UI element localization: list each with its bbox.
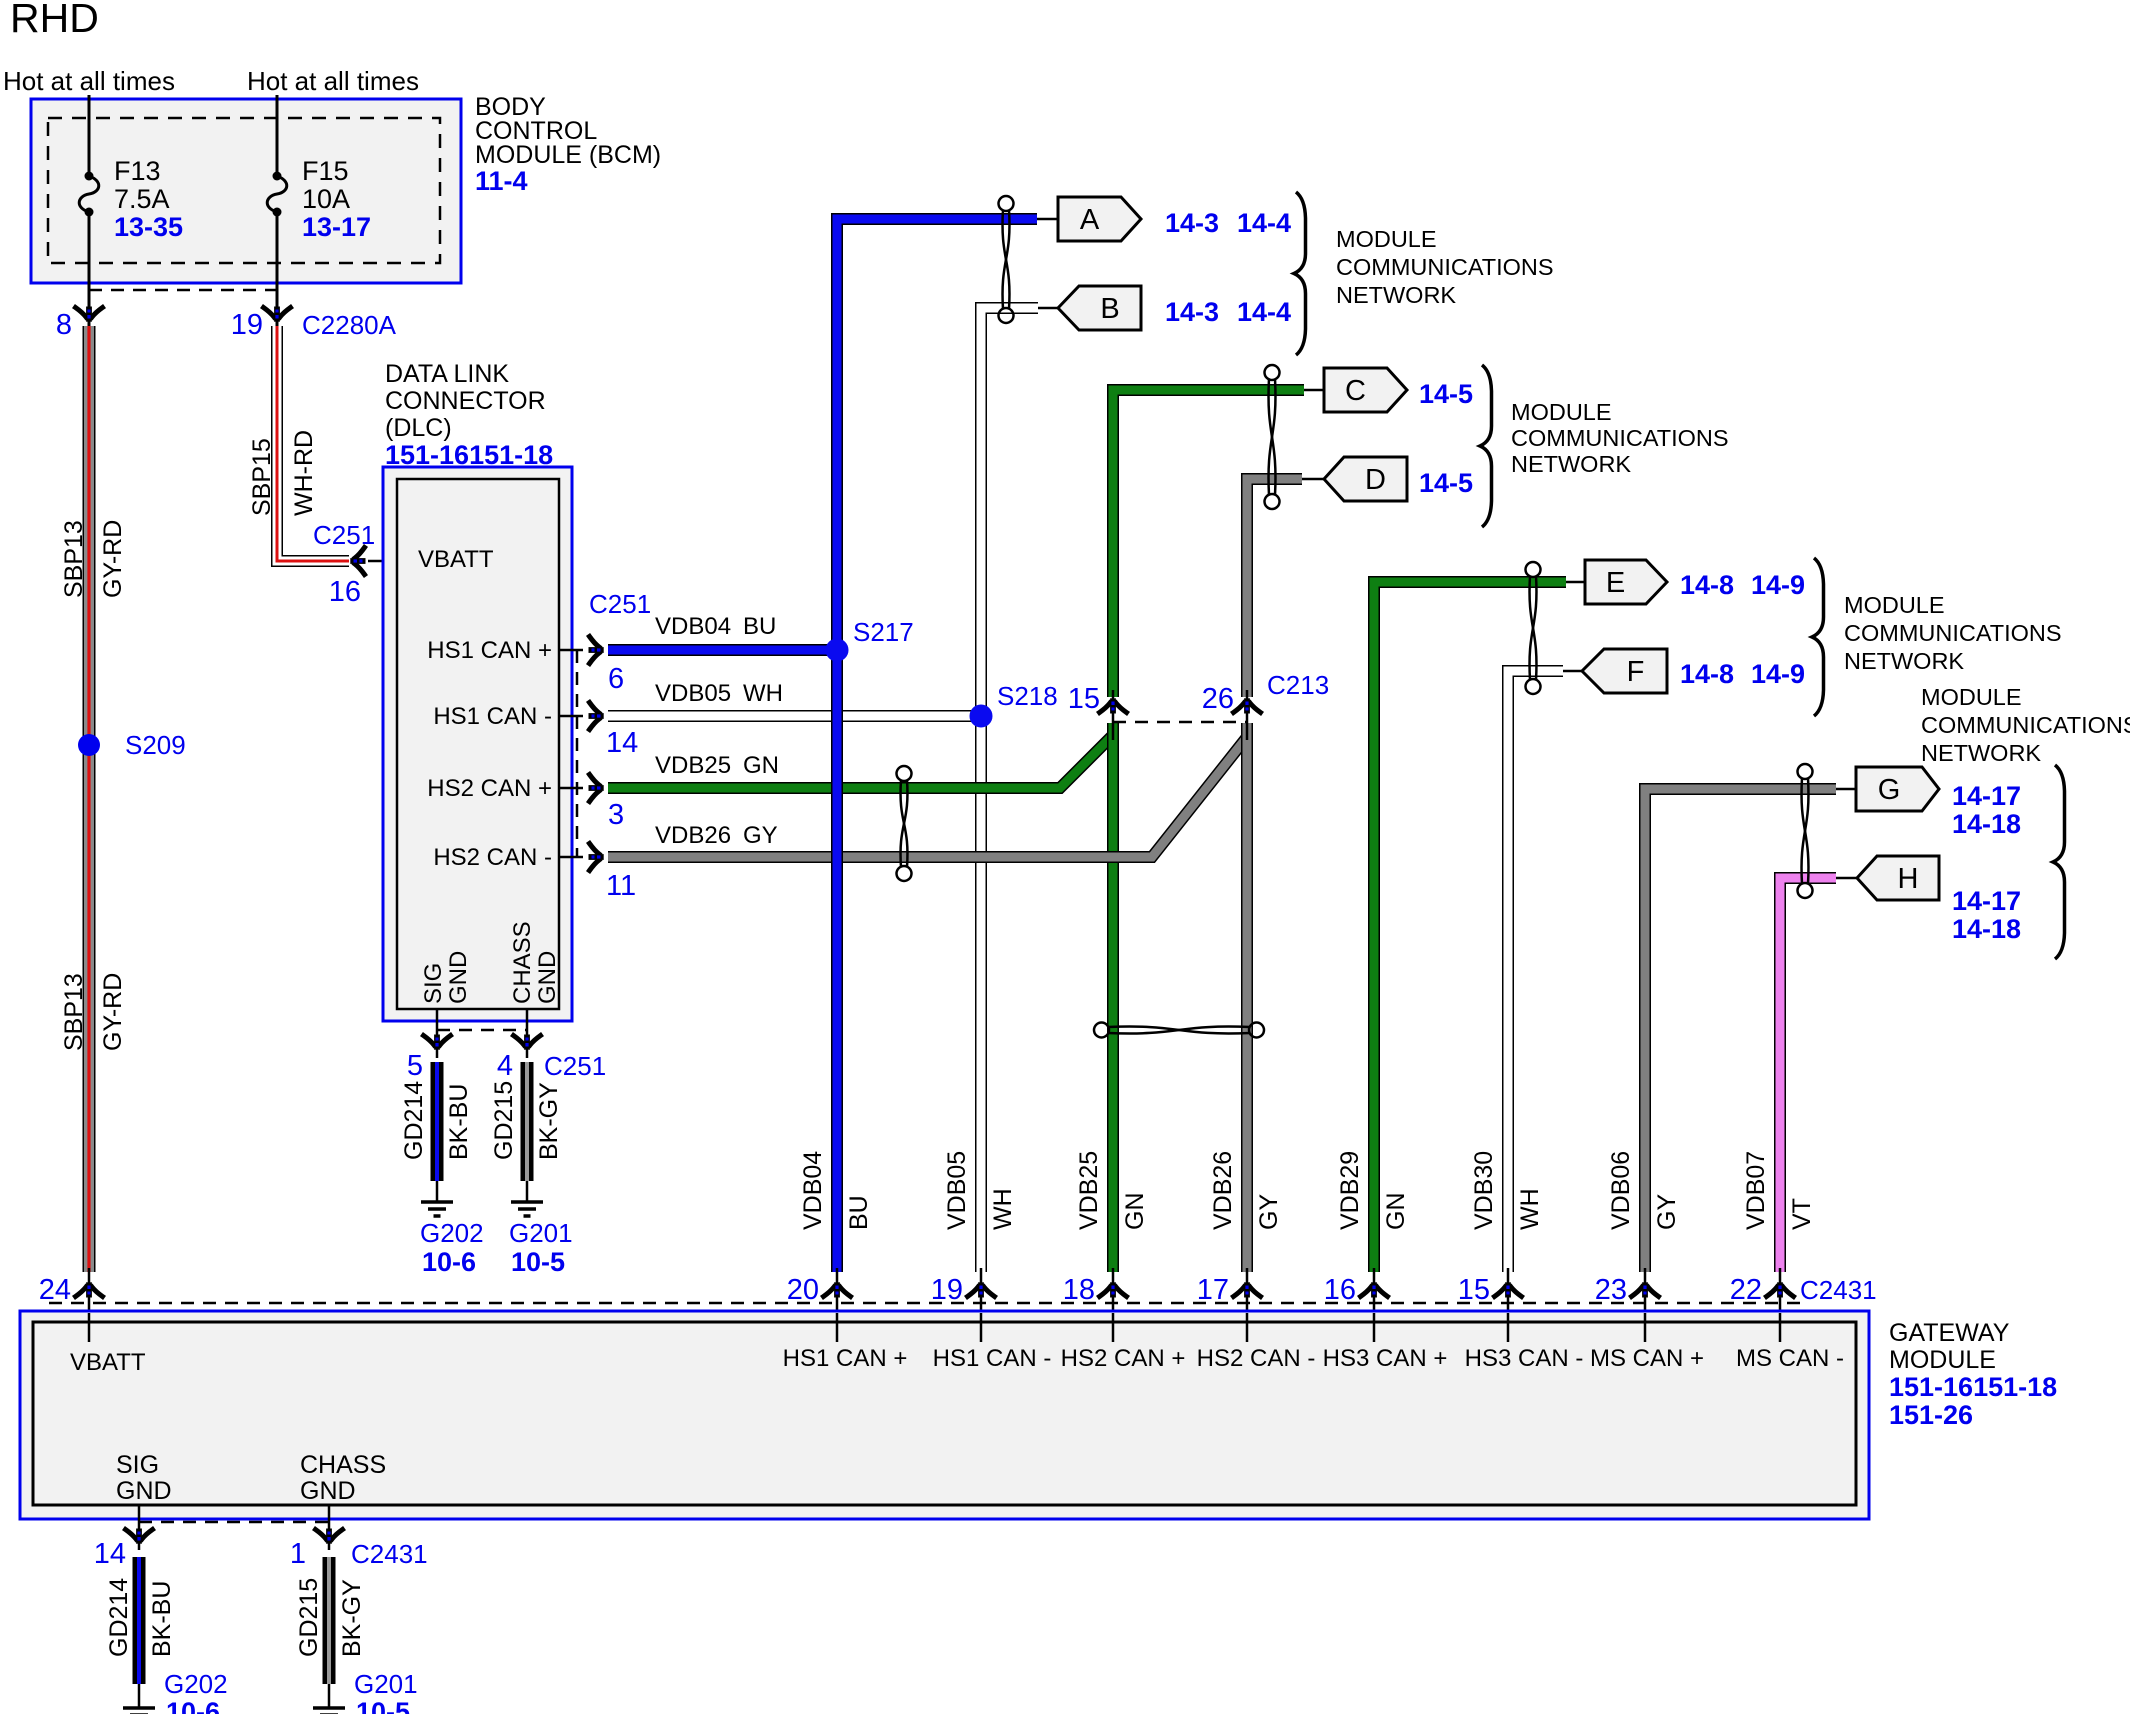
svg-text:CONNECTOR: CONNECTOR [385,387,546,415]
svg-text:MODULE: MODULE [1844,592,1945,618]
C213 pin 15 arrow [1112,690,1115,740]
svg-text:18: 18 [1063,1274,1095,1306]
svg-text:BU: BU [845,1195,873,1230]
svg-text:S218: S218 [997,681,1058,711]
svg-text:HS1 CAN -: HS1 CAN - [433,703,552,730]
svg-text:VDB04: VDB04 [799,1151,827,1230]
BCM pin 19 arrow [264,307,291,322]
svg-text:24: 24 [39,1274,71,1306]
svg-text:VBATT: VBATT [70,1349,146,1376]
svg-text:14-4: 14-4 [1237,208,1291,238]
svg-text:GND: GND [300,1477,356,1505]
svg-text:14-18: 14-18 [1952,914,2021,944]
svg-text:BK-BU: BK-BU [148,1581,176,1657]
svg-text:COMMUNICATIONS: COMMUNICATIONS [1844,620,2062,646]
DLC pin 14 arrow [559,715,583,718]
brace A/B [1294,192,1306,355]
svg-text:13-35: 13-35 [114,212,183,242]
DLC module box [383,467,572,1021]
svg-text:MS CAN -: MS CAN - [1736,1345,1844,1372]
twisted pair symbol E/F [1526,562,1541,577]
svg-text:C2280A: C2280A [302,310,397,340]
svg-text:DATA LINK: DATA LINK [385,360,509,388]
svg-text:COMMUNICATIONS: COMMUNICATIONS [1921,712,2130,738]
svg-text:BK-GY: BK-GY [535,1082,563,1160]
wire from hot feed 1 [88,95,91,172]
svg-text:16: 16 [1324,1274,1356,1306]
svg-text:E: E [1606,567,1625,599]
svg-text:VDB07: VDB07 [1742,1151,1770,1230]
svg-text:GY: GY [1653,1194,1681,1230]
svg-text:HS3 CAN -: HS3 CAN - [1465,1345,1584,1372]
DLC pins dashed line [576,650,579,857]
svg-text:G201: G201 [509,1218,573,1248]
gateway pin 20 arrow [836,1268,839,1342]
splice S217 [826,639,848,661]
svg-text:19: 19 [231,309,263,341]
connector F [1563,670,1582,673]
svg-text:7.5A: 7.5A [114,184,170,214]
connector C2280A dashed line [89,289,277,292]
twisted pair symbol A/B [999,196,1014,211]
connector C [1304,389,1324,392]
svg-text:22: 22 [1730,1274,1762,1306]
svg-text:NETWORK: NETWORK [1921,740,2041,766]
gateway SIG GND stub [138,1505,141,1550]
svg-text:WH: WH [743,680,783,707]
BCM pin 8 arrow [76,307,103,322]
svg-text:C251: C251 [544,1051,606,1081]
svg-text:1: 1 [290,1538,306,1570]
svg-text:GATEWAY: GATEWAY [1889,1319,2010,1347]
svg-text:14: 14 [94,1538,126,1570]
svg-text:MS CAN +: MS CAN + [1590,1345,1704,1372]
svg-text:GD215: GD215 [295,1578,323,1657]
svg-text:A: A [1080,204,1100,236]
svg-text:F15: F15 [302,156,349,186]
connector H [1836,877,1857,880]
wire VBATT into DLC [368,560,397,563]
gateway pin 16 arrow [1373,1268,1376,1342]
svg-text:G: G [1878,774,1901,806]
splice S209 [78,734,100,756]
svg-text:HS2 CAN -: HS2 CAN - [1197,1345,1316,1372]
svg-text:14-9: 14-9 [1751,570,1805,600]
svg-text:NETWORK: NETWORK [1844,648,1964,674]
wire VDB26 GY to D [1247,479,1302,697]
gateway pin 1 arrow [316,1529,343,1544]
svg-text:C251: C251 [589,589,651,619]
gateway pin 18 arrow [1112,1268,1115,1342]
svg-text:14-9: 14-9 [1751,659,1805,689]
svg-text:C213: C213 [1267,670,1329,700]
svg-text:5: 5 [407,1050,423,1082]
svg-text:GN: GN [743,752,779,779]
svg-text:Hot at all times: Hot at all times [3,66,175,96]
svg-text:10-6: 10-6 [422,1247,476,1277]
twisted pair symbol HS2 bus [1094,1023,1109,1038]
BCM module box [31,99,461,283]
svg-text:GD215: GD215 [490,1081,518,1160]
gateway pin 22 arrow [1779,1268,1782,1342]
DLC pin 5 arrow [436,1009,439,1058]
svg-text:(DLC): (DLC) [385,414,452,442]
svg-text:26: 26 [1202,683,1234,715]
svg-text:VBATT: VBATT [418,546,494,573]
svg-text:G201: G201 [354,1669,418,1699]
wire GD215 BK-GY (gateway) [323,1557,336,1684]
svg-text:CHASS: CHASS [509,921,536,1004]
svg-text:VDB05: VDB05 [943,1151,971,1230]
svg-text:VDB30: VDB30 [1470,1151,1498,1230]
svg-text:GN: GN [1382,1193,1410,1231]
svg-text:14-18: 14-18 [1952,809,2021,839]
svg-text:VDB26: VDB26 [1209,1151,1237,1230]
svg-text:S217: S217 [853,617,914,647]
svg-text:COMMUNICATIONS: COMMUNICATIONS [1336,254,1554,280]
wire VDB29 GN [1374,582,1566,1272]
svg-text:8: 8 [56,309,72,341]
connector E [1566,581,1585,584]
svg-text:SBP13: SBP13 [60,973,88,1051]
connector G [1836,788,1855,791]
svg-text:VDB04: VDB04 [655,613,731,640]
svg-text:F13: F13 [114,156,161,186]
svg-text:14-5: 14-5 [1419,379,1473,409]
fuse F15 [276,96,279,176]
splice S218 [970,705,992,727]
svg-text:HS1 CAN +: HS1 CAN + [783,1345,908,1372]
svg-text:COMMUNICATIONS: COMMUNICATIONS [1511,425,1729,451]
gateway ground dashed line [139,1521,329,1524]
svg-text:14-8: 14-8 [1680,659,1734,689]
svg-text:BK-BU: BK-BU [445,1084,473,1160]
gateway CHASS GND stub [328,1505,331,1550]
svg-text:MODULE (BCM): MODULE (BCM) [475,141,661,169]
DLC pin 6 arrow [559,649,583,652]
svg-text:23: 23 [1595,1274,1627,1306]
gateway pin 24 arrow [88,1268,91,1342]
svg-text:VDB25: VDB25 [1075,1151,1103,1230]
ground G202 (DLC) [436,1181,439,1202]
svg-text:10A: 10A [302,184,350,214]
svg-text:S209: S209 [125,730,186,760]
DLC ground dashed line [437,1029,527,1032]
svg-text:GY-RD: GY-RD [99,520,127,598]
DLC pin 11 arrow [559,856,583,859]
svg-text:GND: GND [534,951,561,1004]
svg-text:6: 6 [608,663,624,695]
svg-text:14: 14 [606,727,638,759]
gateway module box [20,1311,1869,1519]
svg-text:MODULE: MODULE [1921,684,2022,710]
wire from F15 to pin 19 [276,212,279,326]
svg-text:GY: GY [743,822,778,849]
svg-text:10-6: 10-6 [166,1697,220,1714]
ground G202 (gateway) [138,1684,141,1708]
wire VDB04 BU crossing overlay [831,704,843,886]
svg-text:GND: GND [445,951,472,1004]
svg-text:14-17: 14-17 [1952,781,2021,811]
brace C/D [1480,365,1492,527]
ground G201 (gateway) [328,1684,331,1708]
svg-text:BK-GY: BK-GY [338,1579,366,1657]
connector A [1037,218,1058,221]
svg-text:19: 19 [931,1274,963,1306]
wire from F13 to pin 8 [88,212,91,326]
svg-text:HS2 CAN -: HS2 CAN - [433,844,552,871]
connector B [1038,307,1058,310]
svg-text:MODULE: MODULE [1889,1346,1996,1374]
wire GD214 BK-BU (gateway) [133,1557,146,1684]
svg-text:HS3 CAN +: HS3 CAN + [1323,1345,1448,1372]
svg-text:151-26: 151-26 [1889,1400,1973,1430]
svg-text:HS1 CAN +: HS1 CAN + [427,637,552,664]
wire from hot feed 2 [276,95,279,172]
svg-text:13-17: 13-17 [302,212,371,242]
svg-text:14-3: 14-3 [1165,297,1219,327]
svg-text:SIG: SIG [420,963,447,1004]
wire GD214 BK-BU (DLC) [431,1062,444,1181]
brace G/H [2053,765,2065,959]
svg-text:MODULE: MODULE [1336,226,1437,252]
svg-text:D: D [1365,464,1386,496]
wire VDB04 BU [608,644,837,656]
svg-text:SIG: SIG [116,1451,159,1479]
svg-text:GND: GND [116,1477,172,1505]
gateway pin 23 arrow [1644,1268,1647,1342]
svg-text:SBP13: SBP13 [60,520,88,598]
fuse F13 [88,96,91,176]
wire VDB26 GY upper [608,737,1247,857]
wire VDB06 GY [1645,789,1836,1272]
svg-text:WH: WH [1516,1188,1544,1230]
svg-text:VDB05: VDB05 [655,680,731,707]
svg-text:10-5: 10-5 [356,1697,410,1714]
svg-text:MODULE: MODULE [1511,399,1612,425]
svg-text:151-16151-18: 151-16151-18 [1889,1372,2057,1402]
wire SBP15 WH-RD [277,326,349,561]
gateway pin 15 arrow [1507,1268,1510,1342]
svg-text:14-5: 14-5 [1419,468,1473,498]
svg-text:C251: C251 [313,520,375,550]
svg-text:14-4: 14-4 [1237,297,1291,327]
svg-text:GD214: GD214 [105,1578,133,1657]
wire GD215 BK-GY (DLC) [521,1062,534,1181]
svg-text:GY: GY [1255,1194,1283,1230]
svg-text:F: F [1627,656,1645,688]
svg-text:RHD: RHD [10,0,99,41]
wire SBP13 GY-RD [83,326,96,1272]
svg-text:VDB25: VDB25 [655,752,731,779]
svg-text:WH-RD: WH-RD [290,430,318,516]
DLC pin 3 arrow [559,787,583,790]
svg-text:WH: WH [989,1188,1017,1230]
wire VDB25 GN upper [608,735,1113,788]
twisted pair symbol DLC HS2 [897,766,912,781]
twisted pair symbol G/H [1798,764,1813,779]
svg-text:C2431: C2431 [1800,1275,1877,1305]
svg-text:GN: GN [1121,1193,1149,1231]
svg-text:15: 15 [1068,683,1100,715]
connector C251 VBATT arrow [350,548,365,575]
svg-text:C2431: C2431 [351,1539,428,1569]
svg-text:VDB06: VDB06 [1607,1151,1635,1230]
gateway pin 19 arrow [980,1268,983,1342]
svg-text:17: 17 [1197,1274,1229,1306]
svg-text:HS2 CAN +: HS2 CAN + [427,775,552,802]
svg-text:SBP15: SBP15 [248,438,276,516]
svg-text:14-8: 14-8 [1680,570,1734,600]
svg-text:HS2 CAN +: HS2 CAN + [1061,1345,1186,1372]
gateway connector dashed line [49,1302,1800,1305]
connector D [1302,478,1324,481]
svg-text:NETWORK: NETWORK [1511,451,1631,477]
wire VDB05 WH [608,710,981,722]
svg-text:4: 4 [497,1050,513,1082]
svg-text:B: B [1100,293,1119,325]
gateway pin 14 arrow [126,1529,153,1544]
svg-text:11: 11 [606,870,636,902]
svg-text:16: 16 [329,576,361,608]
svg-text:G202: G202 [420,1218,484,1248]
gateway pin 17 arrow [1246,1268,1249,1342]
svg-text:14-3: 14-3 [1165,208,1219,238]
svg-text:11-4: 11-4 [475,166,528,196]
ground G201 (DLC) [526,1181,529,1202]
svg-text:HS1 CAN -: HS1 CAN - [933,1345,1052,1372]
svg-text:BU: BU [743,613,776,640]
svg-text:14-17: 14-17 [1952,886,2021,916]
wire VDB07 VT [1780,878,1836,1272]
svg-text:20: 20 [787,1274,819,1306]
svg-text:C: C [1345,375,1366,407]
svg-text:NETWORK: NETWORK [1336,282,1456,308]
connector C213 dashed line [1113,721,1247,724]
svg-text:15: 15 [1458,1274,1490,1306]
brace E/F [1812,558,1824,716]
svg-text:Hot at all times: Hot at all times [247,66,419,96]
svg-text:GY-RD: GY-RD [99,973,127,1051]
svg-text:VT: VT [1788,1198,1816,1230]
svg-text:VDB26: VDB26 [655,822,731,849]
svg-text:GD214: GD214 [400,1081,428,1160]
svg-text:CHASS: CHASS [300,1451,386,1479]
svg-text:VDB29: VDB29 [1336,1151,1364,1230]
svg-text:10-5: 10-5 [511,1247,565,1277]
DLC pin 4 arrow [526,1009,529,1058]
svg-text:G202: G202 [164,1669,228,1699]
svg-text:3: 3 [608,799,624,831]
wire VDB30 WH [1508,671,1563,1272]
gateway pin stubs [88,1313,91,1342]
twisted pair symbol C/D [1265,365,1280,380]
wire VDB25 GN to C [1113,390,1304,697]
C213 pin 26 arrow [1246,690,1249,740]
svg-text:H: H [1898,863,1919,895]
